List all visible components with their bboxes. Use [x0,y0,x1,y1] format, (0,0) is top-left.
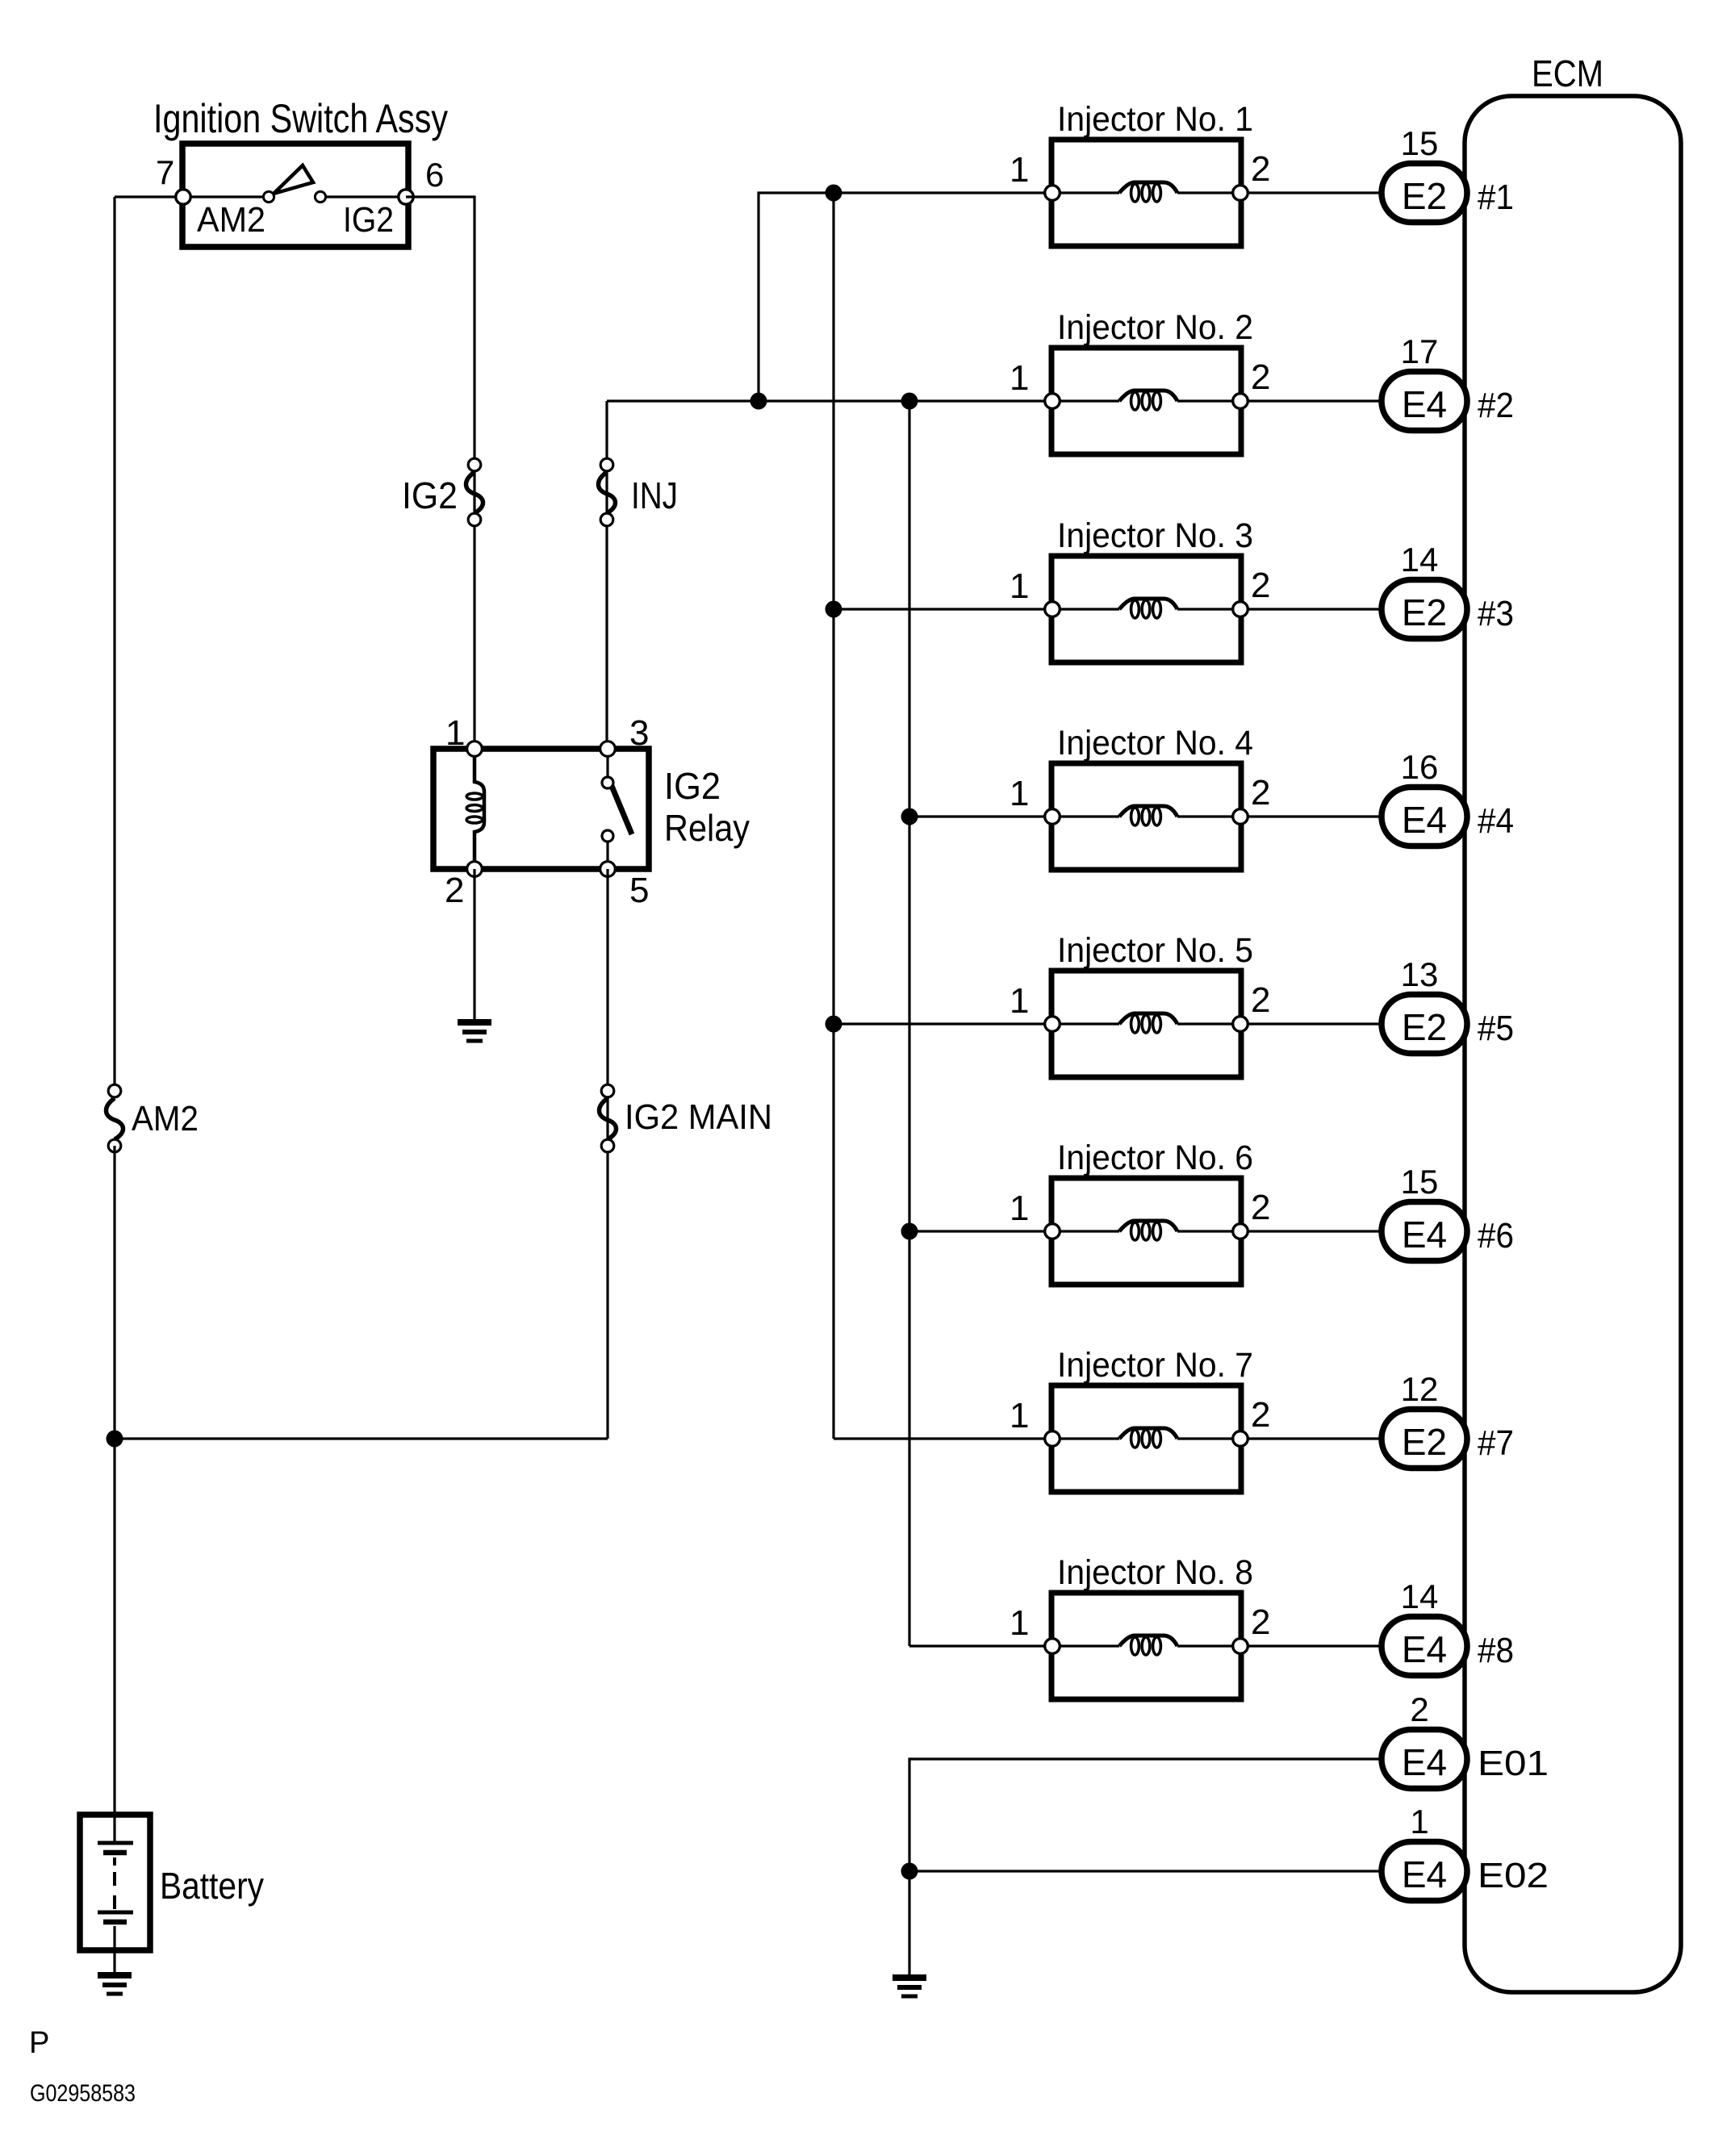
svg-text:1: 1 [1010,566,1029,606]
svg-text:Relay: Relay [664,807,750,849]
junction row 6 bus [901,1223,918,1240]
svg-text:7: 7 [156,153,174,191]
junction row 3 bus [826,601,842,618]
junction row2 riser [750,393,767,410]
svg-text:Injector No. 1: Injector No. 1 [1057,100,1253,139]
svg-text:2: 2 [1251,773,1270,813]
svg-text:Injector No. 6: Injector No. 6 [1057,1139,1253,1177]
connector pin E4 E02 [1382,1842,1467,1901]
relay switch contact bottom [602,830,613,842]
svg-text:P: P [29,2026,49,2060]
injector No. 3 [1045,556,1382,662]
connector pin E2 row 7 [1382,1410,1467,1469]
wire feed row 5 [834,1022,1052,1025]
wire E4 bus vertical [908,401,910,1646]
svg-text:#1: #1 [1478,178,1514,217]
ground ECM [893,1978,926,1996]
svg-text:5: 5 [629,871,649,910]
svg-text:#7: #7 [1478,1423,1514,1463]
svg-text:1: 1 [1010,1396,1029,1435]
svg-text:AM2: AM2 [197,200,265,240]
svg-text:IG2 MAIN: IG2 MAIN [625,1097,772,1137]
svg-text:E2: E2 [1402,591,1447,633]
terminal 7 [176,190,190,204]
wire feed row 8 [909,1644,1052,1647]
wire E02 [909,1870,1382,1872]
switch lever [274,165,313,194]
junction E02 ground [901,1863,918,1880]
wire battery node to IG2 MAIN [115,1437,608,1439]
junction row2 E4 bus [901,393,918,410]
svg-text:Injector No. 7: Injector No. 7 [1057,1346,1253,1385]
junction row 4 bus [901,808,918,825]
relay switch contact wires [606,749,608,776]
svg-text:Injector No. 8: Injector No. 8 [1057,1553,1253,1592]
svg-text:15: 15 [1401,1163,1439,1201]
svg-text:16: 16 [1401,748,1439,786]
svg-text:2: 2 [1251,357,1270,397]
svg-text:E4: E4 [1402,1214,1447,1256]
svg-text:E4: E4 [1402,1853,1447,1895]
svg-text:1: 1 [1010,358,1029,398]
svg-text:2: 2 [1410,1690,1428,1728]
svg-text:E2: E2 [1402,175,1447,217]
svg-text:1: 1 [445,713,465,753]
svg-text:13: 13 [1401,955,1439,993]
svg-text:#5: #5 [1478,1009,1514,1048]
wire contact to terminal6 [320,195,406,198]
wire relay pin2 to ground [473,869,475,1022]
svg-text:E4: E4 [1402,1628,1447,1670]
fuse AM2 symbol [107,1084,123,1152]
svg-text:G02958583: G02958583 [30,2080,136,2107]
relay switch contact top [602,777,613,788]
ECM module box [1465,52,1681,1992]
svg-text:1: 1 [1010,774,1029,813]
svg-text:Injector No. 4: Injector No. 4 [1057,724,1253,763]
svg-text:6: 6 [425,156,444,194]
junction battery node [107,1431,123,1448]
wire E2 bus vertical [832,193,834,1439]
svg-text:14: 14 [1401,541,1439,579]
connector pin E4 row 4 [1382,788,1467,846]
svg-text:IG2: IG2 [343,200,394,240]
connector pin E4 E01 [1382,1730,1467,1789]
wire relay pin5 to IG2 MAIN fuse [606,869,608,1439]
wire feed row 7 [834,1437,1052,1439]
ground battery [98,1975,132,1994]
svg-text:#6: #6 [1478,1216,1514,1256]
svg-text:2: 2 [445,871,464,910]
svg-text:E2: E2 [1402,1421,1447,1463]
wire terminal7 to contact [115,195,269,198]
fuse IG2 symbol [466,458,483,526]
svg-text:2: 2 [1251,149,1270,189]
connector pin E4 row 2 [1382,372,1467,431]
injector No. 5 [1045,971,1382,1077]
svg-text:15: 15 [1401,124,1439,162]
svg-text:E4: E4 [1402,383,1447,425]
svg-text:AM2: AM2 [132,1099,199,1139]
injector No. 7 [1045,1385,1382,1492]
wire feed row 4 [909,815,1052,817]
wire terminal6 to IG2 fuse [406,197,474,749]
switch contact IG2 [315,191,325,202]
injector No. 2 [1045,348,1382,454]
svg-text:E4: E4 [1402,799,1447,841]
wire INJ bus row2 horizontal [607,399,1052,402]
svg-text:INJ: INJ [631,474,678,516]
injector No. 6 [1045,1178,1382,1285]
label IG2 Relay [664,765,750,849]
ground relay [458,1022,491,1041]
svg-text:Battery: Battery [160,1865,264,1907]
ignition switch box [182,144,408,247]
svg-text:#8: #8 [1478,1631,1514,1670]
connector pin E4 row 8 [1382,1617,1467,1676]
svg-text:2: 2 [1251,1395,1270,1435]
injector No. 4 [1045,763,1382,870]
connector pin E2 row 3 [1382,580,1467,639]
svg-text:12: 12 [1401,1370,1439,1408]
svg-text:#2: #2 [1478,386,1514,425]
connector pin E2 row 5 [1382,995,1467,1054]
svg-text:3: 3 [629,713,649,753]
svg-text:1: 1 [1010,1189,1029,1228]
wire INJ fuse to relay pin3 [605,401,608,749]
svg-text:Injector No. 2: Injector No. 2 [1057,308,1253,347]
fuse INJ symbol [599,458,616,526]
svg-text:2: 2 [1251,1188,1270,1227]
svg-text:1: 1 [1010,981,1029,1021]
relay switch lever [612,786,632,834]
svg-text:E4: E4 [1402,1741,1447,1783]
relay pin 3 [600,742,616,757]
svg-text:E01: E01 [1478,1744,1549,1783]
svg-text:14: 14 [1401,1577,1439,1615]
svg-text:2: 2 [1251,980,1270,1020]
svg-text:Ignition Switch Assy: Ignition Switch Assy [153,96,448,141]
svg-text:Injector No. 3: Injector No. 3 [1057,516,1253,555]
wire AM2 fuse to battery [113,1146,115,1843]
wire E01 [909,1759,1382,1978]
connector pin E2 row 1 [1382,164,1467,223]
svg-text:IG2: IG2 [402,474,458,516]
junction row1 E2 bus [826,185,842,202]
injector No. 1 [1045,140,1382,246]
connector pin E4 row 6 [1382,1202,1467,1261]
wire bus row1 riser [759,193,1052,401]
svg-text:ECM: ECM [1532,52,1603,94]
wire feed row 6 [909,1230,1052,1232]
svg-text:1: 1 [1010,1603,1029,1643]
wire feed row 3 [834,608,1052,610]
terminal 6 [399,190,413,204]
relay pin 2 [467,862,483,877]
svg-text:Injector No. 5: Injector No. 5 [1057,931,1253,970]
relay pin 1 [467,742,483,757]
junction row 5 bus [826,1016,842,1033]
svg-text:2: 2 [1251,566,1270,605]
svg-text:#3: #3 [1478,594,1514,633]
relay IG2 box [433,749,649,869]
svg-text:E2: E2 [1402,1006,1447,1048]
injector No. 8 [1045,1593,1382,1699]
battery [80,1815,150,1975]
relay coil [466,757,484,861]
fuse IG2 MAIN symbol [600,1084,617,1152]
svg-text:E02: E02 [1478,1856,1549,1895]
wire terminal7 down to AM2 fuse [113,197,115,1091]
svg-text:1: 1 [1410,1803,1428,1841]
svg-text:17: 17 [1401,332,1439,370]
switch contact AM2 [263,191,274,202]
svg-text:IG2: IG2 [664,765,721,807]
svg-text:#4: #4 [1478,801,1514,841]
svg-text:2: 2 [1251,1602,1270,1642]
svg-text:1: 1 [1010,150,1029,190]
relay pin 5 [600,862,616,877]
